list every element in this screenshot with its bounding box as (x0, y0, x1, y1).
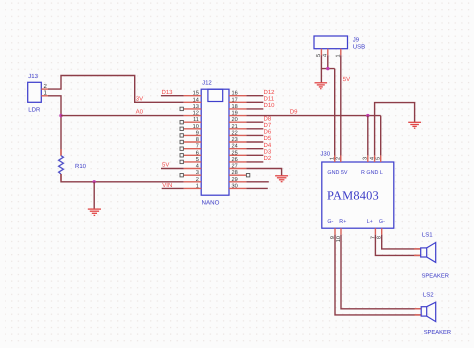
svg-text:17: 17 (232, 97, 238, 103)
net label VIN (162, 182, 172, 189)
amp pin 2 number (336, 157, 342, 160)
amp bottom-left pin names (327, 219, 346, 225)
wire pin9 to LS2 minus (335, 235, 421, 315)
speaker LS2 SPEAKER label (424, 329, 451, 336)
amp top-right pin names (361, 170, 383, 176)
amp top-left pin names (327, 170, 347, 176)
svg-text:D3: D3 (264, 148, 272, 155)
J13 pin 2 stub (41, 88, 48, 90)
J13 pin 1 stub (41, 95, 48, 97)
net label D11 (264, 95, 275, 102)
usb USB label (353, 44, 365, 51)
svg-text:PAM8403: PAM8403 (327, 188, 379, 202)
svg-text:13: 13 (193, 104, 199, 110)
svg-text:D4: D4 (264, 142, 272, 149)
speaker LS1 SPEAKER label (422, 273, 449, 280)
speaker LS1 symbol (421, 243, 436, 263)
amp pin1 stub (334, 155, 336, 162)
ground symbol left (88, 209, 101, 215)
svg-text:5V: 5V (343, 76, 350, 83)
wire usb pin4 down (327, 55, 329, 68)
wire usb ground drop (320, 69, 322, 83)
svg-text:D13: D13 (162, 89, 174, 96)
svg-text:2: 2 (336, 157, 342, 160)
nano left unconnected pin squares (180, 107, 183, 177)
svg-text:SPEAKER: SPEAKER (422, 273, 449, 280)
svg-text:8: 8 (196, 137, 199, 143)
wire D9 down to pin5 (380, 116, 382, 156)
usb pin 5 stub (320, 49, 322, 56)
amp pin 1 number (330, 157, 336, 160)
svg-text:3: 3 (363, 157, 369, 160)
svg-text:D10: D10 (264, 102, 276, 109)
wire D12 (246, 95, 263, 97)
connector J13 label (28, 73, 38, 80)
amp pin 4 number (370, 157, 376, 160)
svg-text:J30: J30 (320, 151, 330, 158)
net label 3V (136, 96, 143, 103)
wire A0 (61, 115, 184, 117)
wire pin29 (246, 181, 268, 183)
wire D5 (246, 141, 263, 143)
wire J13 pin2 to top rail (48, 76, 184, 103)
svg-text:LS2: LS2 (423, 291, 434, 298)
wire D11 (246, 101, 263, 103)
svg-text:26: 26 (232, 157, 238, 163)
speaker LS2 label (423, 291, 434, 298)
resistor R10 label (75, 163, 87, 170)
wire pin27 to ground (246, 169, 281, 176)
usb pin 1 stub (340, 49, 342, 56)
svg-text:R GND L: R GND L (361, 170, 383, 176)
ground symbol nano pin27 (275, 176, 288, 182)
usb pin 4 number (322, 54, 328, 57)
svg-text:22: 22 (232, 130, 238, 136)
svg-text:2: 2 (196, 177, 199, 183)
nano notch (208, 89, 223, 101)
nano right pin stubs (229, 96, 246, 189)
LDR label (28, 106, 41, 113)
svg-text:R+: R+ (339, 219, 346, 225)
usb pin 5 number (316, 54, 322, 57)
svg-text:4: 4 (370, 157, 376, 160)
amp pin 9 number (330, 236, 336, 239)
svg-text:21: 21 (232, 124, 238, 130)
svg-text:10: 10 (193, 124, 199, 130)
wire pin30 (246, 187, 267, 189)
net label D13 (162, 89, 174, 96)
svg-text:29: 29 (232, 177, 238, 183)
svg-text:15: 15 (193, 91, 199, 97)
svg-text:3V: 3V (136, 96, 143, 103)
amp pin9 stub (334, 228, 336, 235)
amp pin10 stub (340, 228, 342, 235)
amp pin7 stub (374, 228, 376, 235)
svg-text:G-: G- (327, 219, 333, 225)
svg-text:J12: J12 (202, 80, 212, 87)
wire pin7 to LS1 minus (375, 235, 420, 256)
amp PAM8403 label (327, 188, 379, 202)
svg-text:LS1: LS1 (422, 232, 433, 239)
net label D10 (264, 102, 276, 109)
svg-text:R10: R10 (75, 163, 87, 170)
svg-text:GND 5V: GND 5V (327, 170, 347, 176)
svg-text:J9: J9 (353, 36, 360, 43)
wire pin4 gnd up and right (375, 103, 415, 156)
amp pin2 stub (340, 155, 342, 162)
svg-text:25: 25 (232, 150, 238, 156)
amp pin8 stub (381, 228, 383, 235)
svg-text:14: 14 (193, 97, 199, 103)
net label D7 (264, 122, 272, 129)
connector J13 body (28, 82, 42, 102)
svg-text:A0: A0 (136, 109, 144, 116)
svg-text:D6: D6 (264, 129, 272, 136)
svg-text:5: 5 (376, 157, 382, 160)
svg-text:SPEAKER: SPEAKER (424, 329, 451, 336)
node A0 junction (59, 114, 62, 117)
wire R10 bottom to NANO pin2 (61, 174, 184, 182)
svg-text:1: 1 (330, 157, 336, 160)
svg-text:NANO: NANO (202, 200, 220, 207)
svg-text:4: 4 (196, 164, 199, 170)
svg-text:19: 19 (232, 111, 238, 117)
speaker LS1 pin stubs (414, 249, 421, 256)
net label A0 (136, 109, 144, 116)
net label D6 (264, 129, 272, 136)
wire 5V nano (161, 168, 184, 170)
svg-text:D9: D9 (290, 109, 298, 116)
resistor R10 pin stubs (60, 149, 62, 180)
svg-text:23: 23 (232, 137, 238, 143)
svg-text:30: 30 (232, 183, 238, 189)
svg-text:D11: D11 (264, 95, 275, 102)
svg-text:9: 9 (196, 130, 199, 136)
wire D9 down to pin3 (367, 116, 369, 156)
svg-text:5: 5 (196, 157, 199, 163)
wire D4 (246, 148, 263, 150)
svg-text:12: 12 (193, 111, 199, 117)
svg-text:6: 6 (196, 150, 199, 156)
speaker LS2 symbol (421, 302, 436, 321)
wire D3 (246, 154, 263, 156)
net label D8 (264, 115, 272, 122)
usb connector body (314, 36, 348, 49)
svg-text:L+: L+ (367, 219, 373, 225)
nano NANO label (202, 200, 220, 207)
amp pin 8 number (377, 236, 383, 239)
amp pin 5 number (376, 157, 382, 160)
svg-text:3: 3 (196, 170, 199, 176)
svg-text:D12: D12 (264, 89, 276, 96)
amp bottom-right pin names (367, 219, 385, 225)
junction D9 to R input (366, 114, 369, 117)
wire VIN (162, 187, 184, 189)
net label D4 (264, 142, 272, 149)
amp body (322, 162, 394, 228)
wire pin10 to LS2 plus (341, 235, 421, 309)
net label 5V (343, 76, 350, 83)
wire D10 (246, 108, 263, 110)
svg-text:16: 16 (232, 91, 238, 97)
junction usb gnd (326, 67, 329, 70)
net label D2 (264, 155, 272, 162)
svg-text:18: 18 (232, 104, 238, 110)
svg-text:7: 7 (196, 144, 199, 150)
wire pin8 to LS1 plus (382, 235, 421, 249)
wire J13 pin1 down to R10 (48, 96, 61, 156)
net label 5V nano (162, 162, 169, 169)
wire usb gnd pins (321, 55, 334, 68)
svg-text:11: 11 (193, 117, 199, 123)
svg-text:20: 20 (232, 117, 238, 123)
amp pin 7 number (370, 236, 376, 239)
nano left pin numbers (193, 91, 199, 190)
wire gnd vertical to J30 (334, 69, 336, 162)
svg-text:USB: USB (353, 44, 365, 51)
svg-text:28: 28 (232, 170, 238, 176)
svg-text:5V: 5V (162, 162, 169, 169)
svg-text:LDR: LDR (28, 106, 41, 113)
amp pin4 stub (374, 155, 376, 162)
usb J9 label (353, 36, 360, 43)
amp pin5 stub (380, 155, 382, 162)
J13 pin 1 number (44, 90, 48, 97)
wire D7 (246, 128, 263, 130)
amp J30 label (320, 151, 330, 158)
resistor R10 (59, 156, 64, 174)
nano right pin numbers (232, 91, 238, 190)
speaker LS2 pin stubs (415, 309, 422, 315)
amp pin 3 number (363, 157, 369, 160)
speaker LS1 label (422, 232, 433, 239)
net label D5 (264, 135, 272, 142)
svg-text:D5: D5 (264, 135, 272, 142)
svg-text:D8: D8 (264, 115, 272, 122)
wire D13 (161, 95, 184, 97)
usb pin 4 stub (327, 49, 329, 56)
svg-text:D7: D7 (264, 122, 272, 129)
ground symbol right of amp (408, 122, 421, 128)
nano J12 label (202, 80, 212, 87)
amp pin 10 number (336, 236, 342, 242)
nano right pin 28 unconnected square (246, 174, 249, 177)
net label D12 (264, 89, 276, 96)
wire 5V vertical to J30 (340, 55, 342, 162)
amp pin3 stub (367, 155, 369, 162)
wire D8 (246, 121, 263, 123)
svg-text:G-: G- (379, 219, 385, 225)
svg-text:27: 27 (232, 164, 238, 170)
svg-text:24: 24 (232, 144, 238, 150)
wire D9 (246, 115, 380, 117)
nano left pin stubs (184, 96, 202, 189)
wire D2 (246, 161, 263, 163)
junction at ground tap (93, 180, 96, 183)
ground symbol usb (315, 83, 328, 89)
net label D3 (264, 148, 272, 155)
svg-text:J13: J13 (28, 73, 38, 80)
wire D6 (246, 134, 263, 136)
svg-text:D2: D2 (264, 155, 272, 162)
usb pin 1 number (335, 54, 341, 57)
nano U body (201, 89, 229, 195)
wire ground tap (93, 182, 95, 209)
svg-text:1: 1 (196, 183, 199, 189)
J13 pin 2 number (44, 83, 48, 90)
net label D9 (290, 109, 298, 116)
